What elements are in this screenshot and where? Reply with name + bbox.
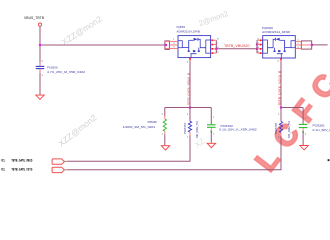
- off-page connector TBTB_GATE_VBUS: [52, 159, 64, 164]
- wire VBUS vertical: [39, 26, 41, 62]
- resistor PR8305: [278, 108, 283, 140]
- junction at C8300 tap: [39, 44, 41, 46]
- junction Q1 input: [165, 44, 167, 46]
- junction Q1 output: [215, 48, 217, 50]
- svg-text:TBTB_VBUS20: TBTB_VBUS20: [224, 44, 250, 48]
- wire PR8305 down to TBTB_GATE_VSYS: [67, 136, 281, 170]
- svg-text:AONR32314_DFN8: AONR32314_DFN8: [262, 30, 290, 34]
- watermark text tile 4: [193, 136, 207, 149]
- wire PC8301 to ground: [302, 132, 304, 146]
- svg-text:10K_0402_5%: 10K_0402_5%: [195, 121, 199, 139]
- wire R8308 to ground: [164, 135, 166, 146]
- svg-text:PR8305: PR8305: [274, 122, 278, 134]
- svg-text:PR8308: PR8308: [148, 120, 157, 124]
- wire VBUS horizontal to Q1: [40, 44, 166, 46]
- wire gate VSYS horizontal: [281, 107, 303, 109]
- svg-text:01: 01: [1, 167, 5, 171]
- capacitor PC8302: [207, 108, 216, 136]
- Q1 gate pin 4: [187, 58, 191, 64]
- svg-text:TBTB_GATE_VBUS_B: TBTB_GATE_VBUS_B: [186, 73, 190, 106]
- svg-text:4.7U_25V_M_X5R_0402: 4.7U_25V_M_X5R_0402: [47, 70, 85, 74]
- Q2 left pin fan pins 5-8: [257, 39, 263, 54]
- ground under PR8308: [161, 146, 169, 150]
- watermark text tile 2: [198, 9, 230, 28]
- capacitor PC8301: [299, 108, 308, 136]
- wire Q2 gate vertical: [280, 62, 282, 108]
- watermark LCFC: [249, 59, 330, 177]
- transistor Q2 PQ8300 body: [263, 36, 296, 58]
- port circle VBUS_TBTB: [38, 23, 41, 26]
- resistor PR8308: [162, 114, 167, 136]
- svg-text:PR8307: PR8307: [183, 122, 187, 134]
- watermark text tile 1: [60, 14, 104, 48]
- junction Q2 output: [311, 44, 313, 46]
- ground under PC8300: [36, 95, 44, 99]
- off-page connector TBTB_GATE_VSYS: [52, 167, 64, 172]
- Q2 right pin fan: [295, 40, 311, 49]
- resistor PR8307: [187, 108, 192, 139]
- svg-text:1/20W_2M_5%_0201: 1/20W_2M_5%_0201: [123, 125, 156, 129]
- wire cap to ground: [39, 73, 41, 95]
- svg-text:0.1U_50V_K_X5R_0402: 0.1U_50V_K_X5R_0402: [219, 128, 257, 132]
- edge marker diamond: [328, 159, 330, 161]
- Q1 right pin fan pins 5-8: [211, 39, 220, 54]
- wire Q1 gate vertical: [189, 61, 191, 107]
- svg-text:10K_0402_5%: 10K_0402_5%: [287, 121, 291, 139]
- transistor Q1 PQ8302 body: [178, 36, 211, 58]
- stub connector2 to wire: [64, 169, 67, 171]
- svg-text:VBUS_TBTB: VBUS_TBTB: [24, 16, 45, 20]
- svg-text:PQ8302: PQ8302: [177, 25, 186, 29]
- svg-text:0.1U_50V_K_X5R_0402: 0.1U_50V_K_X5R_0402: [313, 128, 330, 132]
- ground under PC8302: [207, 143, 215, 147]
- svg-text:TBTB_GATE_VSYS_B: TBTB_GATE_VSYS_B: [277, 71, 281, 106]
- capacitor PC8300: [36, 61, 45, 77]
- wire Q2 output to right: [312, 44, 328, 46]
- svg-text:TBTB_GATE_VSYS: TBTB_GATE_VSYS: [11, 167, 32, 171]
- svg-text:AONR32314_DFN8: AONR32314_DFN8: [177, 29, 201, 33]
- junction gate VSYS node: [280, 106, 282, 108]
- wire to R8308: [164, 108, 166, 117]
- wire PR8307 down to TBTB_GATE_VBUS: [67, 136, 190, 162]
- junction gate VBUS node: [189, 106, 191, 108]
- watermark text tile 3: [56, 112, 99, 148]
- stub connector1 to wire: [64, 160, 67, 162]
- ground under PC8301: [300, 146, 308, 150]
- wire PC8302 to ground: [210, 131, 212, 143]
- wire TBTB_VBUS20: [216, 48, 257, 50]
- Q2 gate pin 4: [277, 58, 282, 63]
- wire gate VBUS horizontal: [165, 107, 212, 109]
- svg-text:01: 01: [1, 159, 5, 163]
- junction Q2 input: [256, 48, 258, 50]
- svg-text:TBTB_GATE_VBUS: TBTB_GATE_VBUS: [11, 159, 32, 163]
- Q1 left pin fan: [165, 39, 178, 50]
